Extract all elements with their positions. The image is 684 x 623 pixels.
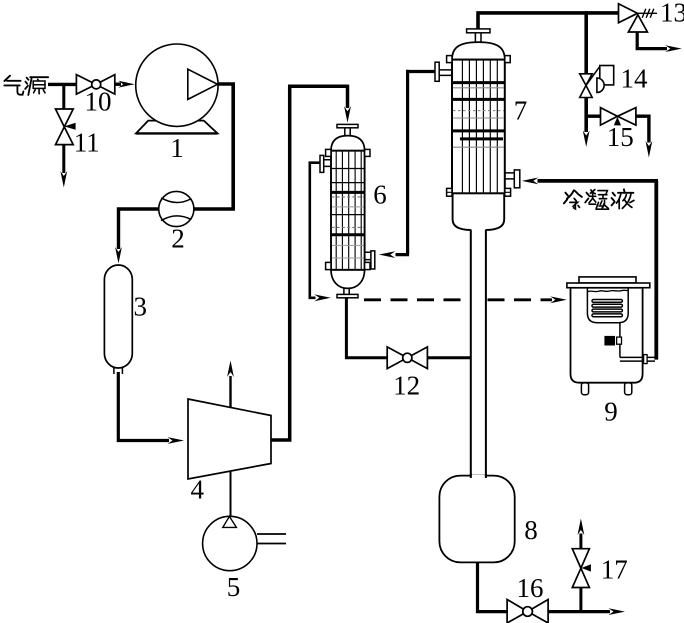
svg-text:3: 3 [134,292,148,322]
svg-text:17: 17 [601,555,628,585]
svg-text:4: 4 [191,475,205,505]
svg-text:13: 13 [660,0,684,28]
svg-text:16: 16 [517,573,544,603]
svg-text:2: 2 [171,224,185,254]
svg-text:15: 15 [607,122,634,152]
svg-text:7: 7 [514,96,528,126]
svg-text:10: 10 [85,87,112,117]
svg-text:12: 12 [393,371,420,401]
svg-text:6: 6 [373,180,387,210]
svg-text:9: 9 [604,397,618,427]
svg-text:5: 5 [227,572,241,602]
svg-text:11: 11 [74,128,100,158]
svg-text:8: 8 [524,515,538,545]
svg-text:14: 14 [621,64,649,94]
svg-text:1: 1 [170,133,184,163]
